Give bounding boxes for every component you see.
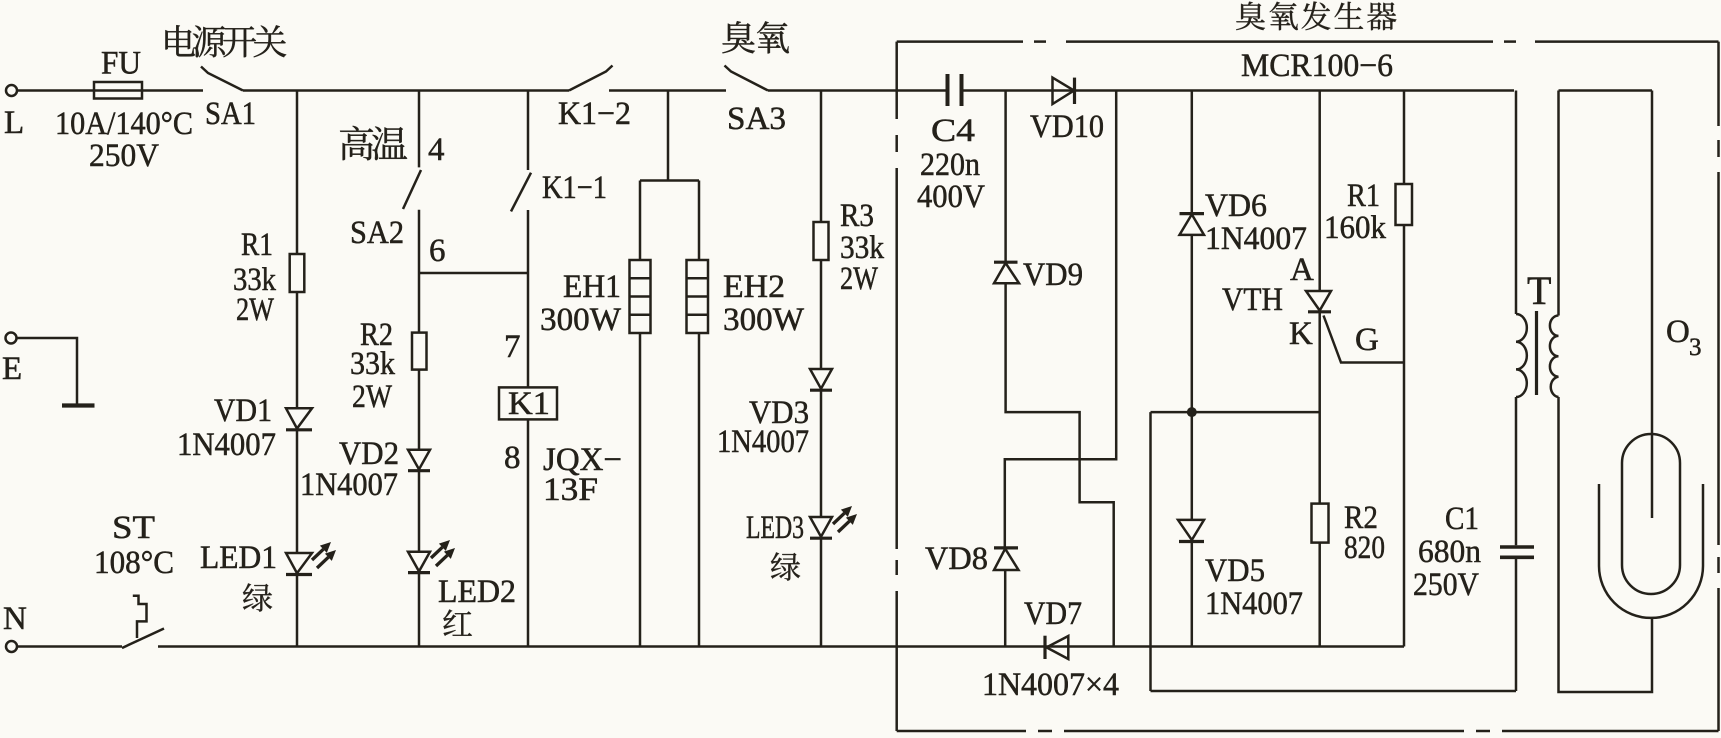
wire inner electrode xyxy=(1651,91,1654,519)
wire SA2 to R2 xyxy=(418,210,421,333)
svg-text:K1−2: K1−2 xyxy=(558,96,631,132)
wire LED3 to bottom rail xyxy=(820,538,823,646)
wire bottom rail xyxy=(158,645,1404,648)
wire R3 to VD3 xyxy=(820,260,823,369)
svg-text:K1: K1 xyxy=(508,386,550,422)
resistor R1 xyxy=(233,227,304,328)
diode VD3 xyxy=(717,369,832,460)
svg-text:T: T xyxy=(1527,268,1551,313)
svg-text:MCR100−6: MCR100−6 xyxy=(1241,48,1393,84)
svg-text:300W: 300W xyxy=(723,302,805,338)
svg-text:160k: 160k xyxy=(1324,210,1386,246)
wire node to SA2 xyxy=(418,91,421,168)
diode VD2 xyxy=(300,436,430,503)
LED LED2 xyxy=(408,540,516,610)
wire secondary bottom xyxy=(1559,397,1653,692)
wire R1 to VD1 xyxy=(296,292,299,408)
wire VD2 to LED2 xyxy=(418,471,421,552)
wire LED1 to bottom rail xyxy=(296,575,299,647)
svg-text:R1: R1 xyxy=(1347,178,1380,214)
svg-text:A: A xyxy=(1290,252,1314,288)
svg-text:C1: C1 xyxy=(1445,501,1479,537)
diode VD5 xyxy=(1178,520,1303,622)
svg-text:VD1: VD1 xyxy=(214,393,272,429)
wire node to K1-1 xyxy=(527,91,530,171)
resistor R3 xyxy=(814,198,885,297)
label 电源开关 xyxy=(165,25,286,57)
svg-text:8: 8 xyxy=(504,440,521,476)
wire node to R1 xyxy=(296,91,299,255)
label 1N4007x4 xyxy=(982,667,1119,703)
svg-text:680n: 680n xyxy=(1418,534,1481,570)
node junction dot xyxy=(1187,407,1197,417)
wire node to VTH xyxy=(1318,91,1321,292)
svg-text:LED3: LED3 xyxy=(746,510,804,546)
resistor R2 xyxy=(350,317,427,415)
svg-text:2W: 2W xyxy=(236,292,275,328)
svg-text:VD8: VD8 xyxy=(925,541,988,577)
svg-text:1N4007: 1N4007 xyxy=(717,424,809,460)
relay coil K1 xyxy=(499,386,557,422)
svg-text:820: 820 xyxy=(1344,530,1385,566)
resistor R1 160k xyxy=(1324,178,1412,246)
thyristor VTH xyxy=(1222,252,1331,352)
transformer primary coil xyxy=(1516,314,1527,397)
wire E to ground xyxy=(17,338,78,404)
dashed box top border xyxy=(897,40,1719,43)
svg-text:10A/140°C: 10A/140°C xyxy=(55,106,193,142)
svg-text:2W: 2W xyxy=(352,379,393,415)
resistor R2 820 xyxy=(1312,500,1386,566)
terminal E xyxy=(2,333,22,388)
wire bottom rail N to ST xyxy=(17,645,122,648)
LED LED3 xyxy=(746,506,857,546)
heater EH1 xyxy=(540,260,651,338)
capacitor C4 xyxy=(917,74,985,215)
svg-text:1N4007: 1N4007 xyxy=(300,467,398,503)
wire node to VD6 xyxy=(1191,91,1194,214)
wire gate lead xyxy=(1324,316,1405,363)
svg-text:7: 7 xyxy=(504,329,521,365)
svg-text:FU: FU xyxy=(101,46,141,82)
wire VD3 to LED3 xyxy=(820,390,823,517)
svg-text:1N4007×4: 1N4007×4 xyxy=(982,667,1119,703)
svg-text:VD9: VD9 xyxy=(1023,257,1083,293)
svg-text:300W: 300W xyxy=(540,302,622,338)
diode VD8 xyxy=(925,541,1019,577)
svg-text:6: 6 xyxy=(429,233,446,269)
dashed box bottom border xyxy=(897,730,1719,733)
diode VD7 xyxy=(1024,596,1082,659)
switch SA3 xyxy=(725,66,787,138)
wire R1 160k to bottom rail xyxy=(1403,225,1406,647)
ozone tube outer electrode xyxy=(1599,484,1703,618)
diode VD1 xyxy=(177,393,312,463)
label 臭氧 xyxy=(722,21,789,53)
wire top rail SA1 to K1-2 xyxy=(243,89,569,92)
label pin 8 xyxy=(504,440,521,476)
svg-text:250V: 250V xyxy=(1413,567,1479,603)
svg-text:2W: 2W xyxy=(840,261,879,297)
svg-text:LED2: LED2 xyxy=(438,574,516,610)
diode VD9 xyxy=(994,257,1083,293)
svg-text:VD5: VD5 xyxy=(1205,553,1265,589)
svg-text:EH1: EH1 xyxy=(563,269,621,305)
label MCR100-6 xyxy=(1241,48,1393,84)
wire node to heater bracket xyxy=(667,91,670,181)
diode VD6 xyxy=(1180,188,1308,257)
wire LED2 to bottom rail xyxy=(418,573,421,647)
svg-text:400V: 400V xyxy=(917,179,985,215)
transformer core xyxy=(1527,268,1551,395)
wire jumper 6 to K1-1 xyxy=(419,272,528,275)
svg-text:K: K xyxy=(1289,316,1313,352)
label 高温 xyxy=(340,126,407,160)
wire gate node line xyxy=(1151,411,1320,414)
fuse FU xyxy=(94,46,142,99)
svg-text:33k: 33k xyxy=(350,346,395,382)
wire R2 to VD2 xyxy=(418,370,421,450)
wire rail C4 to end xyxy=(964,89,1515,92)
svg-text:VD7: VD7 xyxy=(1024,596,1082,632)
svg-text:LED1: LED1 xyxy=(200,540,277,576)
label FU rating xyxy=(55,106,193,174)
wire node to C1 bottom xyxy=(1151,412,1517,691)
wire VD8 to bottom rail xyxy=(1004,570,1007,647)
label pin 6 xyxy=(429,233,446,269)
wire heater bracket xyxy=(640,181,699,261)
wire top rail K1-2 to SA3 xyxy=(609,89,726,92)
terminal L xyxy=(4,85,24,141)
label 绿 LED1 xyxy=(243,583,272,611)
ozone tube inner capsule xyxy=(1622,434,1680,594)
svg-text:VTH: VTH xyxy=(1222,282,1283,318)
switch K1-2 xyxy=(558,66,631,133)
svg-text:C4: C4 xyxy=(931,113,975,149)
wire node to R3 xyxy=(820,91,823,223)
wire secondary top xyxy=(1559,91,1653,316)
svg-text:L: L xyxy=(4,105,24,141)
svg-text:N: N xyxy=(3,601,27,637)
wire top rail L to SA1 xyxy=(17,89,203,92)
wire rail to primary xyxy=(1515,91,1518,315)
switch K1-1 xyxy=(511,170,607,211)
wire VD5 to bottom rail xyxy=(1191,542,1194,647)
svg-text:3: 3 xyxy=(1689,334,1702,361)
wire node to R1 160k xyxy=(1403,91,1406,185)
wire C1 to bottom corner xyxy=(1515,559,1518,691)
svg-text:G: G xyxy=(1355,322,1379,358)
wire VD10 node down xyxy=(1005,91,1116,548)
wire VD9 jog to bottom rail xyxy=(1006,283,1114,646)
wire EH1 to bottom rail xyxy=(639,333,642,647)
svg-text:O: O xyxy=(1666,314,1690,350)
wire top rail SA3 to C4 xyxy=(768,89,946,92)
svg-text:220n: 220n xyxy=(920,147,980,183)
svg-text:1N4007: 1N4007 xyxy=(177,427,276,463)
transformer secondary coil xyxy=(1550,316,1559,398)
label 红 LED2 xyxy=(443,609,472,635)
capacitor C1 xyxy=(1413,501,1534,603)
wire R2 to bottom rail xyxy=(1318,543,1321,647)
label JQX-13F xyxy=(543,442,622,508)
svg-text:ST: ST xyxy=(112,510,155,546)
ground xyxy=(62,403,95,407)
wire EH2 to bottom rail xyxy=(698,333,701,647)
LED LED1 xyxy=(200,540,336,576)
thermal switch ST xyxy=(94,510,174,648)
wire coil K1 to bottom rail xyxy=(527,419,530,646)
dashed box right border xyxy=(1717,42,1720,731)
svg-text:108°C: 108°C xyxy=(94,545,174,581)
svg-text:VD10: VD10 xyxy=(1030,109,1104,145)
svg-text:13F: 13F xyxy=(543,472,598,508)
svg-text:250V: 250V xyxy=(89,138,159,174)
svg-text:1N4007: 1N4007 xyxy=(1205,586,1303,622)
diode VD10 xyxy=(1030,78,1104,145)
label O3 xyxy=(1666,314,1702,361)
heater EH2 xyxy=(687,260,805,338)
dashed box left border xyxy=(895,42,898,731)
svg-text:SA3: SA3 xyxy=(727,101,786,137)
svg-text:K1−1: K1−1 xyxy=(542,170,607,206)
wire primary to C1 xyxy=(1515,397,1518,545)
svg-text:4: 4 xyxy=(428,132,445,168)
wire K1-1 to coil K1 xyxy=(527,210,530,387)
label 臭氧发生器 xyxy=(1236,1,1396,30)
terminal N xyxy=(3,601,27,652)
switch SA2 xyxy=(350,170,421,251)
switch SA1 xyxy=(201,67,256,133)
svg-text:SA2: SA2 xyxy=(350,215,404,251)
wire node to VD9 xyxy=(1004,91,1007,263)
svg-text:R1: R1 xyxy=(241,227,273,263)
svg-text:SA1: SA1 xyxy=(205,96,256,132)
label pin 4 xyxy=(428,132,445,168)
svg-text:EH2: EH2 xyxy=(723,269,785,305)
svg-text:E: E xyxy=(2,351,22,387)
wire VD6 to VD5 xyxy=(1191,235,1194,520)
svg-text:R3: R3 xyxy=(840,198,874,234)
label 绿 LED3 xyxy=(771,552,800,580)
svg-text:VD6: VD6 xyxy=(1205,188,1267,224)
wire VTH to R2 xyxy=(1318,312,1321,504)
wire VD1 to LED1 xyxy=(296,430,299,553)
label pin 7 xyxy=(504,329,521,365)
